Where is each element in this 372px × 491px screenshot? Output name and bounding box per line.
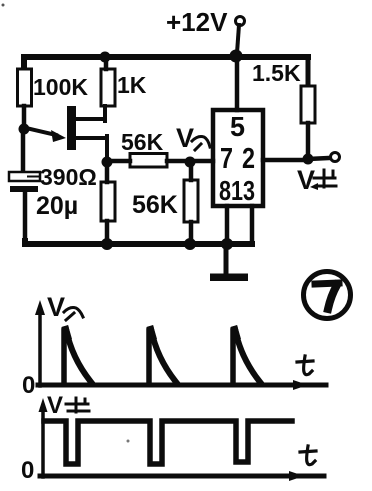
node ground junction (221, 238, 233, 250)
svg-text:+12V: +12V (166, 7, 228, 37)
capacitor C1 20u (9, 131, 40, 241)
svg-text:813: 813 (219, 175, 255, 206)
svg-text:7: 7 (220, 143, 233, 175)
svg-text:100K: 100K (33, 74, 88, 100)
resistor R3 390ohm (101, 182, 115, 221)
svg-text:390Ω: 390Ω (40, 164, 97, 190)
circled figure number 7 (304, 272, 351, 319)
svg-text:2: 2 (242, 143, 255, 175)
transistor Q1 (26, 106, 107, 160)
svg-text:V: V (47, 392, 63, 419)
+12V terminal (236, 17, 245, 26)
wire +12V to rail (237, 25, 239, 53)
svg-text:0: 0 (21, 457, 34, 484)
waveform 1 Vin plot (22, 292, 326, 399)
label t (304, 356, 312, 375)
wire 56Kv bottom lead (189, 222, 194, 243)
node emitter junction (19, 124, 30, 135)
node 390 top junction (102, 157, 113, 168)
resistor R6 1.5K (306, 57, 311, 86)
wire 1K top lead (104, 57, 109, 69)
svg-text:5: 5 (230, 111, 245, 142)
wire IC pin2 (263, 158, 309, 163)
wire 390 top lead (105, 162, 110, 182)
svg-text:1.5K: 1.5K (252, 60, 301, 86)
node 390 bottom junction (101, 238, 113, 250)
node output junction (303, 154, 314, 165)
axis y2 (41, 409, 45, 477)
axis x2 (40, 474, 324, 479)
wire top supply rail (24, 57, 308, 69)
svg-text:V: V (176, 123, 194, 153)
label Vout (297, 165, 336, 195)
node junction rail/IC pin (230, 50, 243, 63)
pulse 1 (62, 325, 92, 384)
wire 56Kv top lead (189, 162, 194, 180)
resistor R5 56K vertical (184, 180, 198, 222)
wire IC bottom pin right (250, 206, 255, 242)
wire IC bottom pin left (225, 206, 230, 244)
resistor R2 1K (101, 69, 115, 106)
wire 56K left lead (107, 159, 130, 164)
resistor R4 56K horizontal (130, 154, 167, 168)
wire 100K bottom lead (22, 106, 27, 126)
svg-text:0: 0 (22, 372, 35, 399)
axis y1 (38, 311, 42, 386)
wire to output terminal (308, 158, 329, 159)
wire bottom rail (25, 241, 252, 244)
svg-text:56K: 56K (121, 129, 164, 155)
svg-text:V: V (297, 165, 315, 195)
node junction rail/1K (100, 52, 111, 63)
node 56Kv bottom junction (184, 238, 196, 250)
resistor R1 100K (18, 69, 32, 106)
ground (210, 244, 248, 281)
wire IC top pin (235, 57, 240, 110)
label t (307, 446, 315, 465)
op-amp U1 IC box (213, 110, 263, 206)
wire 1.5K bottom lead (306, 123, 311, 159)
wire 390 bottom lead (105, 221, 110, 243)
wire 56K right lead (167, 159, 190, 164)
pulse 2 (147, 325, 177, 384)
waveform 2 Vout plot (21, 392, 324, 484)
svg-text:20µ: 20µ (36, 192, 78, 220)
svg-text:1K: 1K (117, 72, 147, 98)
axis x1 (38, 383, 326, 388)
output terminal (331, 153, 340, 162)
svg-text:56K: 56K (132, 191, 178, 219)
label Vin (176, 123, 210, 153)
pulse 3 (231, 325, 261, 384)
node pin7 junction (185, 157, 196, 168)
svg-text:V: V (47, 292, 65, 322)
square wave (44, 421, 292, 464)
wire IC pin7 (190, 159, 213, 164)
